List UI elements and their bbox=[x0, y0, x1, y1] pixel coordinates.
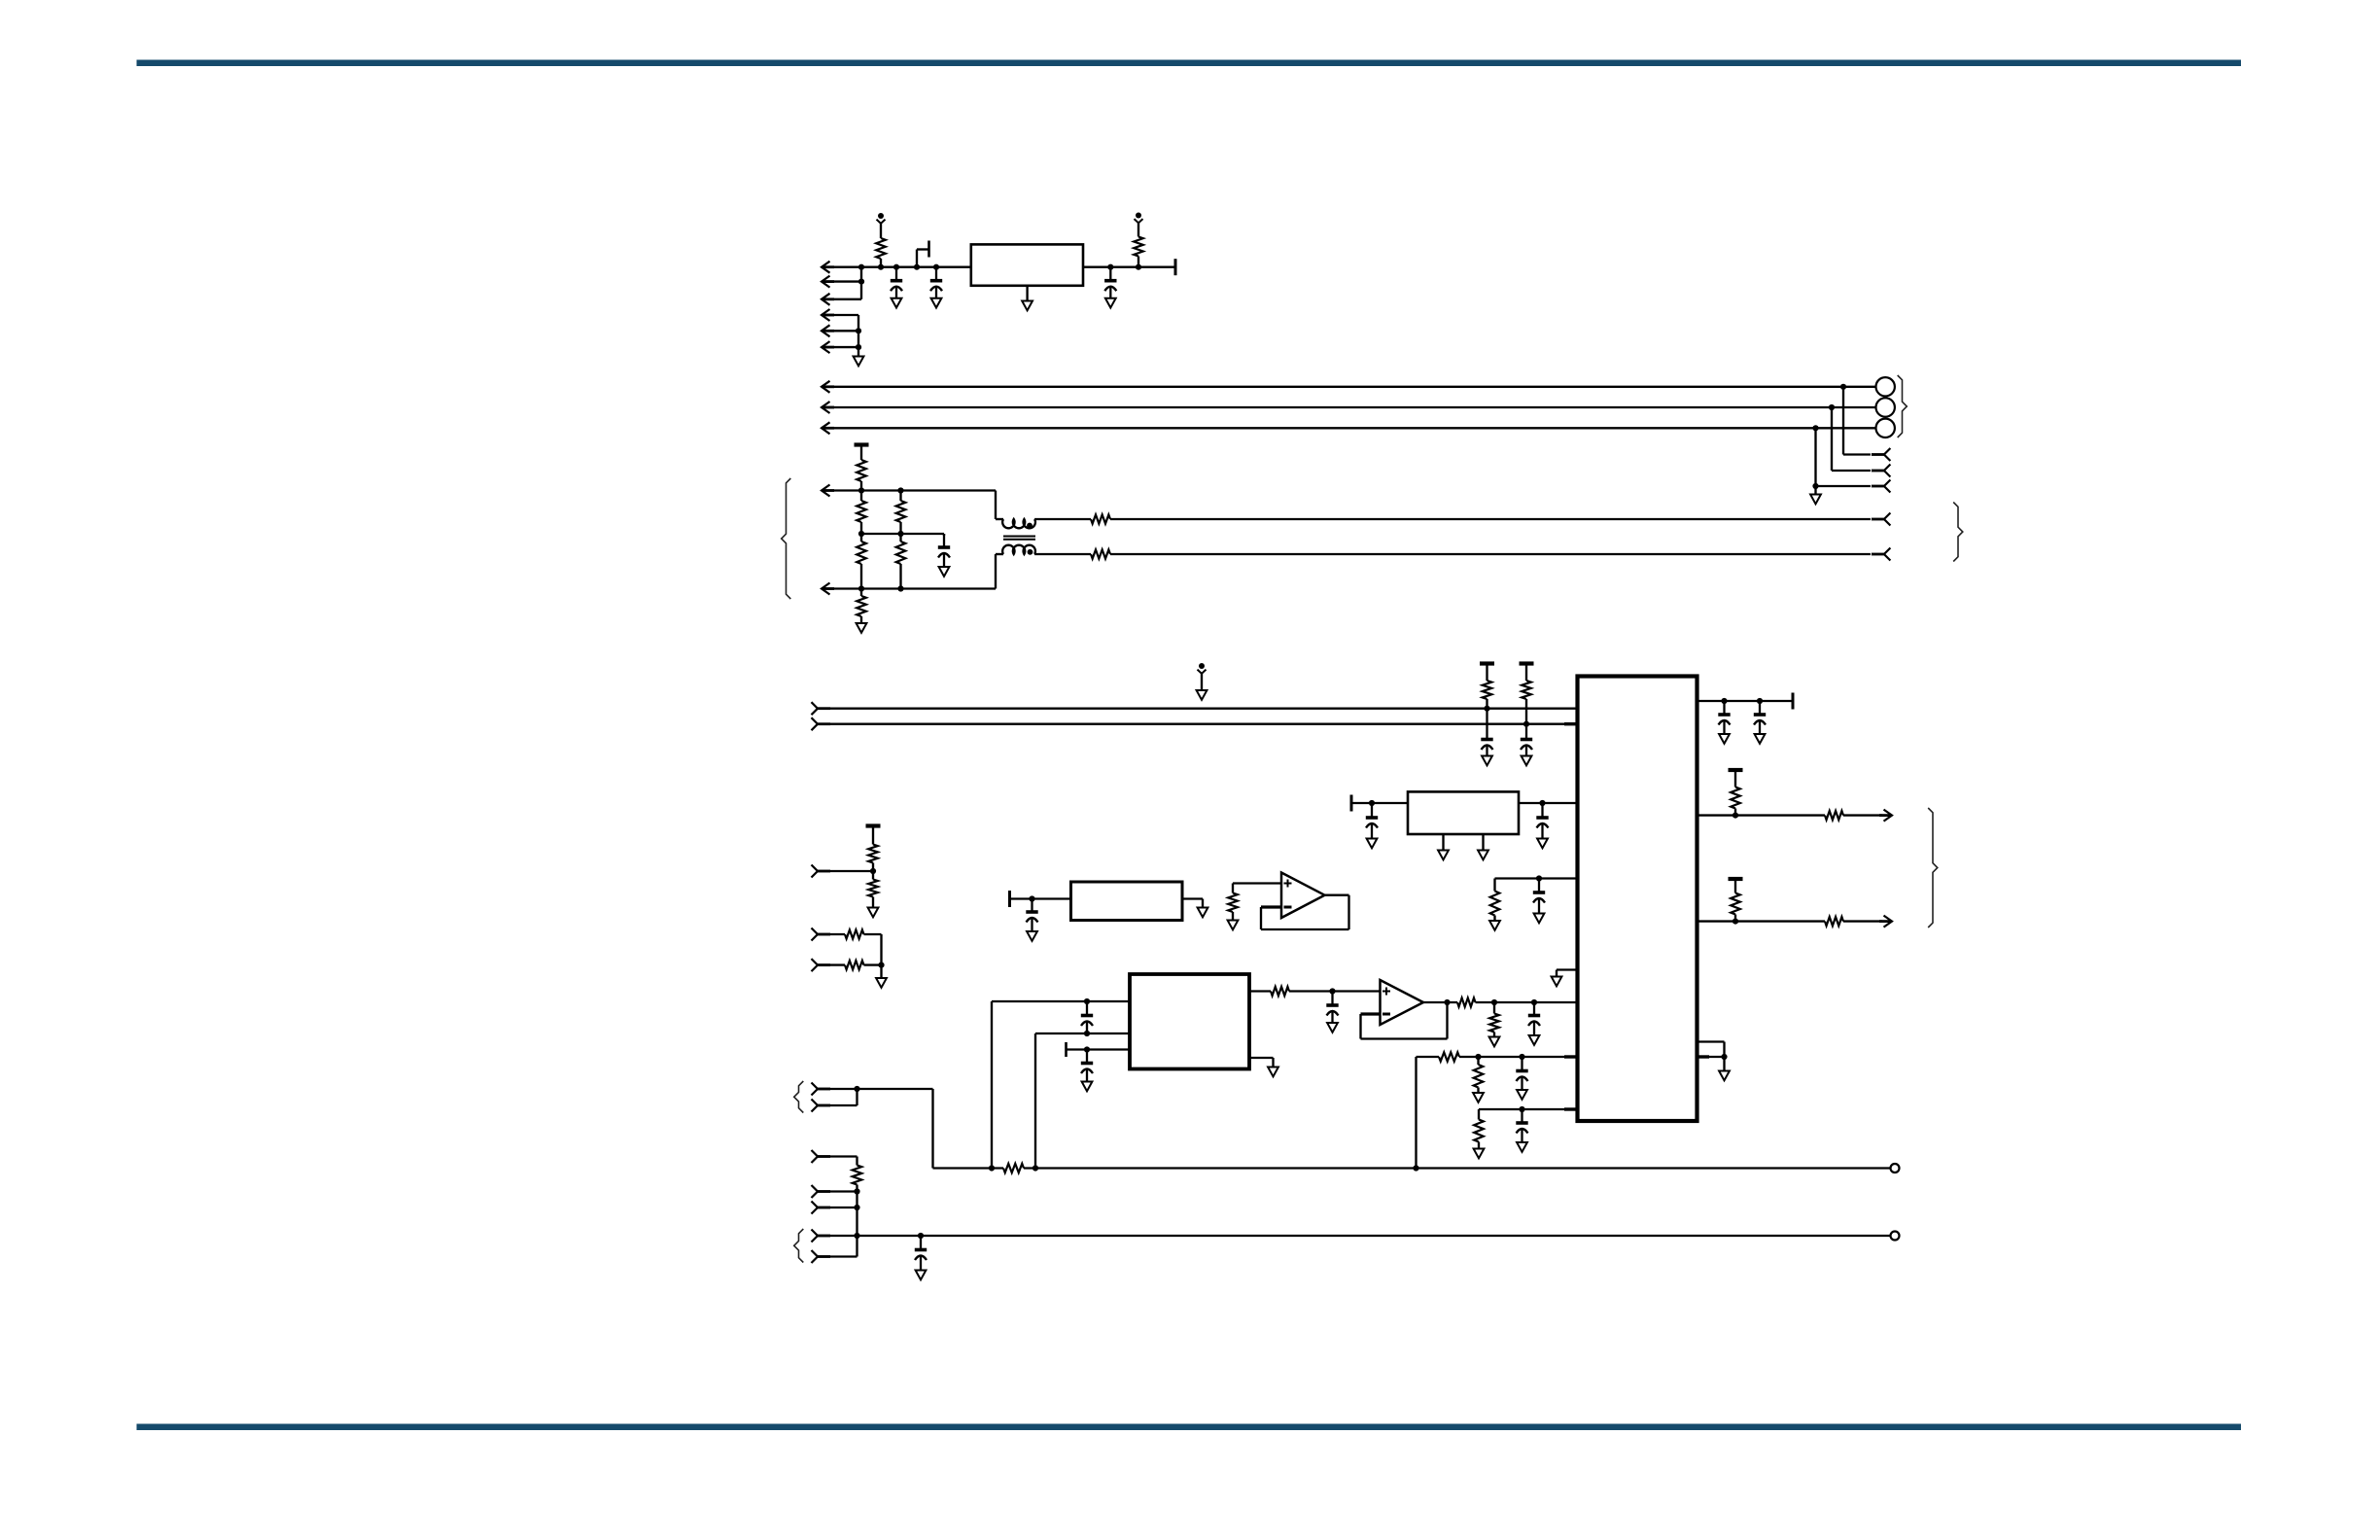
chevron C3c bbox=[812, 1202, 819, 1214]
capacitor C14 bbox=[1331, 992, 1333, 1004]
resistor RB bbox=[1522, 681, 1531, 699]
wire to line1 bbox=[857, 1088, 933, 1090]
power flag gnd bbox=[1199, 663, 1205, 669]
U2 right gnd step pin bbox=[1697, 1040, 1725, 1042]
wire transformer bottom bbox=[822, 587, 996, 589]
resistor RO1 bbox=[1731, 787, 1740, 809]
power bar B bbox=[1520, 661, 1534, 665]
port arrow P6 bbox=[822, 341, 830, 353]
resistor RT4 bbox=[857, 542, 866, 564]
brace pair out bbox=[1953, 503, 1963, 562]
wire top main bbox=[822, 266, 971, 268]
bus line 3 bbox=[822, 427, 1876, 429]
ground bbox=[857, 623, 867, 633]
terminal tick bbox=[1174, 259, 1177, 275]
capacitor C2 bbox=[935, 267, 937, 280]
resistor RT6 bbox=[857, 596, 866, 616]
bus drop 3 bbox=[1812, 425, 1818, 431]
node dots top wire bbox=[858, 264, 864, 270]
chevron G1b bbox=[812, 1100, 819, 1112]
bus line B bbox=[812, 717, 819, 730]
brace group 1 bbox=[794, 1081, 804, 1113]
U4 pin2 wire bbox=[1035, 1032, 1130, 1034]
resistor RT5 bbox=[896, 542, 906, 564]
brace outputs bbox=[1928, 808, 1938, 927]
Y1 right pin gnd bbox=[1182, 897, 1203, 899]
brace transformer input bbox=[782, 478, 791, 599]
U4 right gnd pin bbox=[1249, 1057, 1274, 1059]
riser pin2 bbox=[1034, 1033, 1036, 1169]
divider chevron bbox=[812, 865, 819, 878]
capacitor CR1 bbox=[1521, 1109, 1522, 1122]
capacitor CA bbox=[1486, 709, 1487, 738]
chevron G2b bbox=[812, 1250, 819, 1263]
capacitor C12 bbox=[1086, 1001, 1088, 1014]
port arrow P1 bbox=[822, 262, 830, 273]
resistor RR1 bbox=[1478, 1109, 1480, 1120]
power flag bbox=[878, 213, 884, 219]
port arrow P3 bbox=[822, 294, 830, 305]
IC U1 box bbox=[971, 244, 1083, 285]
bus drop 1 bbox=[1840, 384, 1846, 390]
wire mid bbox=[861, 533, 944, 535]
resistor RV1 bbox=[1477, 1057, 1479, 1065]
capacitor CB bbox=[1525, 724, 1527, 738]
op-amp A1 bbox=[1281, 873, 1325, 919]
power bar D bbox=[866, 823, 881, 827]
riser net VCO bbox=[1415, 1057, 1417, 1169]
capacitor C1 bbox=[895, 267, 897, 280]
power bar A bbox=[1480, 661, 1494, 665]
top rule bar bbox=[137, 60, 2242, 67]
ground bus bbox=[1814, 486, 1816, 495]
oscillator box Y1 bbox=[1071, 882, 1183, 921]
U4 pin3 wire bbox=[1067, 1048, 1131, 1050]
net REF wire bbox=[1479, 1108, 1578, 1110]
resistor R1 bbox=[876, 238, 886, 259]
wire U1 output bbox=[1083, 266, 1175, 268]
capacitor C13 bbox=[1086, 1050, 1088, 1063]
bus line 1 bbox=[822, 386, 1876, 388]
U2 top right pin bbox=[1697, 700, 1794, 702]
wire riser bbox=[860, 267, 862, 299]
net VCO wire bbox=[1417, 1056, 1440, 1058]
resistor RD2 bbox=[868, 880, 878, 897]
capacitor CC1 bbox=[1723, 701, 1725, 714]
chevron G2a bbox=[812, 1230, 819, 1242]
bottom rule bar bbox=[137, 1424, 2242, 1431]
capacitor CC2 bbox=[1759, 701, 1761, 714]
brace group 2 bbox=[794, 1229, 804, 1263]
capacitor CU3b bbox=[1541, 803, 1543, 817]
chevron C3a bbox=[812, 1150, 819, 1163]
resistor RA1 bbox=[1228, 893, 1238, 913]
A1 + input bbox=[1233, 882, 1281, 884]
power flag 2 bbox=[1136, 213, 1141, 219]
resistor RT3 bbox=[896, 501, 906, 522]
net DAC wire bbox=[1495, 877, 1578, 879]
resistor RN1 bbox=[1493, 879, 1495, 892]
capacitor CU3a bbox=[1371, 803, 1373, 817]
transformer T1 bbox=[995, 491, 997, 520]
node dots transformer bbox=[858, 487, 864, 493]
wire transformer top bbox=[822, 489, 996, 491]
terminal circle 2 bbox=[1891, 1232, 1900, 1241]
A2 feedback bbox=[1361, 1012, 1381, 1015]
long line 2 bbox=[857, 1235, 1891, 1237]
Y1 left pin bbox=[1010, 897, 1071, 899]
chevron G1a bbox=[812, 1083, 819, 1096]
IC U2 big box bbox=[1578, 677, 1697, 1122]
long line 1 bbox=[933, 1167, 1004, 1169]
capacitor CY1 bbox=[1031, 899, 1032, 911]
resistor RA2 bbox=[1493, 1002, 1495, 1014]
IC U4 box bbox=[1130, 974, 1249, 1069]
wire riser2 bbox=[857, 315, 859, 357]
connector circles bbox=[1876, 377, 1895, 396]
brace connector bbox=[1898, 375, 1907, 437]
resistor RC3 bbox=[853, 1166, 862, 1185]
capacitor CV1 bbox=[1521, 1057, 1522, 1069]
resistor R2 pullup bbox=[1136, 264, 1141, 270]
terminal circle 1 bbox=[1891, 1164, 1900, 1172]
U1 ground pin bbox=[1026, 286, 1028, 301]
bus drop 2 bbox=[1829, 404, 1835, 410]
wire pair line 1 bbox=[1034, 518, 1091, 520]
bus line 2 bbox=[822, 406, 1876, 408]
jumper stub bbox=[916, 250, 918, 267]
resistor RO2 bbox=[1731, 893, 1740, 915]
capacitor C3 bbox=[1107, 264, 1113, 270]
capacitor CA2 bbox=[1533, 1002, 1535, 1014]
capacitor CT1 bbox=[943, 534, 945, 546]
A2 output bbox=[1423, 1001, 1457, 1003]
output line 1 bbox=[1697, 814, 1826, 816]
bus line A bbox=[812, 702, 819, 715]
port arrow P4 bbox=[822, 309, 830, 321]
riser pin1 bbox=[991, 1001, 993, 1169]
power bar bbox=[855, 442, 869, 446]
wire pair line 2 bbox=[1034, 553, 1091, 555]
output line 2 bbox=[1697, 920, 1826, 922]
power bar O1 bbox=[1729, 768, 1743, 772]
resistor RT1 bbox=[857, 460, 866, 481]
U3 left pin bbox=[1351, 802, 1407, 804]
IC U3 box bbox=[1408, 791, 1519, 834]
resistor RD1 bbox=[868, 845, 878, 863]
U3 right pin bbox=[1520, 802, 1578, 804]
U2 left gnd step pin bbox=[1557, 968, 1578, 970]
ground bbox=[854, 357, 864, 367]
chevron C3b bbox=[812, 1185, 819, 1198]
resistor RA bbox=[1483, 681, 1492, 699]
U3 bottom pins gnd bbox=[1442, 834, 1444, 851]
series pair chevrons bbox=[812, 928, 819, 941]
capacitor CL2 bbox=[920, 1236, 922, 1248]
port arrow P5 bbox=[822, 325, 830, 336]
port arrow P2 bbox=[822, 276, 830, 288]
capacitor CN1 bbox=[1538, 879, 1540, 892]
U4 pin1 wire bbox=[992, 1000, 1130, 1002]
op-amp A2 bbox=[1381, 980, 1424, 1025]
A1 feedback bbox=[1261, 905, 1281, 908]
U4 right pin1 bbox=[1249, 990, 1271, 992]
resistor RT2 bbox=[857, 501, 866, 522]
power bar O2 bbox=[1729, 877, 1743, 881]
